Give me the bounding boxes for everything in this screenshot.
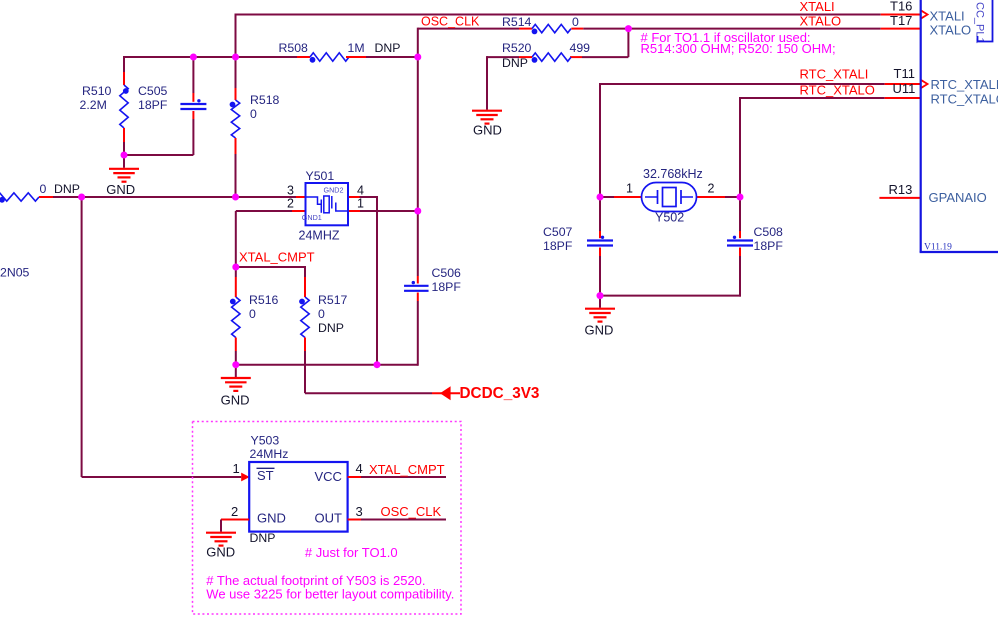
svg-text:Y502: Y502 bbox=[655, 211, 684, 225]
svg-text:GND1: GND1 bbox=[302, 213, 322, 222]
svg-text:18PF: 18PF bbox=[754, 239, 784, 253]
svg-text:0: 0 bbox=[318, 307, 325, 321]
svg-text:GND: GND bbox=[106, 182, 135, 197]
svg-text:0: 0 bbox=[250, 107, 257, 121]
svg-text:2N05: 2N05 bbox=[0, 266, 30, 280]
svg-text:R517: R517 bbox=[318, 293, 348, 307]
svg-text:C507: C507 bbox=[543, 225, 573, 239]
svg-text:C505: C505 bbox=[138, 84, 168, 98]
svg-text:OUT: OUT bbox=[315, 511, 343, 526]
svg-text:R514: R514 bbox=[502, 15, 532, 29]
svg-text:18PF: 18PF bbox=[432, 280, 462, 294]
svg-text:GND: GND bbox=[585, 322, 614, 337]
svg-text:T17: T17 bbox=[890, 13, 912, 28]
svg-text:R520: R520 bbox=[502, 41, 532, 55]
svg-text:3: 3 bbox=[287, 183, 294, 197]
svg-text:R518: R518 bbox=[250, 93, 280, 107]
svg-text:C508: C508 bbox=[754, 225, 784, 239]
svg-text:GND: GND bbox=[206, 545, 235, 560]
svg-text:GND: GND bbox=[473, 123, 502, 138]
svg-text:OSC_CLK: OSC_CLK bbox=[421, 14, 480, 28]
svg-text:GND2: GND2 bbox=[324, 186, 344, 195]
svg-text:RTC_XTALO: RTC_XTALO bbox=[800, 82, 875, 97]
svg-text:0: 0 bbox=[572, 15, 579, 29]
svg-text:DNP: DNP bbox=[318, 321, 344, 335]
svg-text:DNP: DNP bbox=[250, 531, 276, 545]
svg-text:R510: R510 bbox=[82, 84, 112, 98]
svg-text:1: 1 bbox=[626, 182, 633, 196]
svg-text:T16: T16 bbox=[890, 0, 912, 14]
svg-text:ST: ST bbox=[257, 468, 274, 483]
svg-text:R508: R508 bbox=[279, 41, 309, 55]
svg-text:U11: U11 bbox=[893, 81, 916, 96]
svg-text:R514:300 OHM; R520: 150 OHM;: R514:300 OHM; R520: 150 OHM; bbox=[641, 41, 836, 56]
svg-text:0: 0 bbox=[249, 307, 256, 321]
svg-text:XTAL_CMPT: XTAL_CMPT bbox=[239, 250, 315, 265]
svg-text:DNP: DNP bbox=[54, 182, 80, 196]
svg-text:R13: R13 bbox=[889, 182, 913, 197]
svg-text:18PF: 18PF bbox=[543, 239, 573, 253]
svg-text:OSC_CLK: OSC_CLK bbox=[381, 504, 442, 519]
svg-text:0: 0 bbox=[40, 182, 47, 196]
svg-text:2: 2 bbox=[708, 182, 715, 196]
svg-text:XTALO: XTALO bbox=[930, 23, 972, 38]
svg-text:XTALI: XTALI bbox=[800, 0, 835, 14]
svg-text:RTC_XTALI: RTC_XTALI bbox=[800, 67, 869, 82]
svg-text:1M: 1M bbox=[348, 41, 365, 55]
svg-text:CC_PL1: CC_PL1 bbox=[974, 2, 986, 44]
svg-text:3: 3 bbox=[356, 504, 363, 519]
svg-text:32.768kHz: 32.768kHz bbox=[643, 167, 703, 181]
svg-text:1: 1 bbox=[357, 197, 364, 211]
svg-text:2: 2 bbox=[231, 504, 238, 519]
svg-text:4: 4 bbox=[357, 183, 364, 197]
svg-text:24MHz: 24MHz bbox=[250, 447, 289, 461]
svg-text:18PF: 18PF bbox=[138, 98, 168, 112]
svg-text:1: 1 bbox=[233, 461, 240, 476]
svg-text:DNP: DNP bbox=[375, 41, 401, 55]
svg-text:VCC: VCC bbox=[315, 469, 342, 484]
svg-text:We use 3225 for better layout: We use 3225 for better layout compatibil… bbox=[206, 586, 454, 601]
svg-text:24MHZ: 24MHZ bbox=[299, 229, 340, 243]
svg-text:GPANAIO: GPANAIO bbox=[929, 190, 987, 205]
svg-text:499: 499 bbox=[570, 41, 591, 55]
svg-text:XTALI: XTALI bbox=[930, 8, 965, 23]
svg-text:2.2M: 2.2M bbox=[80, 98, 107, 112]
svg-text:RTC_XTALO: RTC_XTALO bbox=[931, 92, 998, 107]
svg-text:R516: R516 bbox=[249, 293, 279, 307]
svg-text:GND: GND bbox=[221, 392, 250, 407]
svg-text:Y503: Y503 bbox=[251, 434, 280, 448]
svg-text:RTC_XTALI: RTC_XTALI bbox=[931, 77, 998, 92]
svg-text:DNP: DNP bbox=[502, 56, 528, 70]
svg-text:DCDC_3V3: DCDC_3V3 bbox=[460, 385, 540, 402]
svg-text:V11.19: V11.19 bbox=[924, 243, 952, 253]
svg-text:4: 4 bbox=[356, 461, 363, 476]
svg-text:C506: C506 bbox=[432, 266, 462, 280]
svg-text:Y501: Y501 bbox=[306, 169, 335, 183]
svg-text:T11: T11 bbox=[894, 66, 915, 81]
svg-text:2: 2 bbox=[287, 197, 294, 211]
svg-text:XTAL_CMPT: XTAL_CMPT bbox=[369, 462, 445, 477]
svg-text:GND: GND bbox=[257, 511, 286, 526]
svg-text:# Just for TO1.0: # Just for TO1.0 bbox=[305, 545, 398, 560]
svg-text:XTALO: XTALO bbox=[800, 14, 842, 29]
